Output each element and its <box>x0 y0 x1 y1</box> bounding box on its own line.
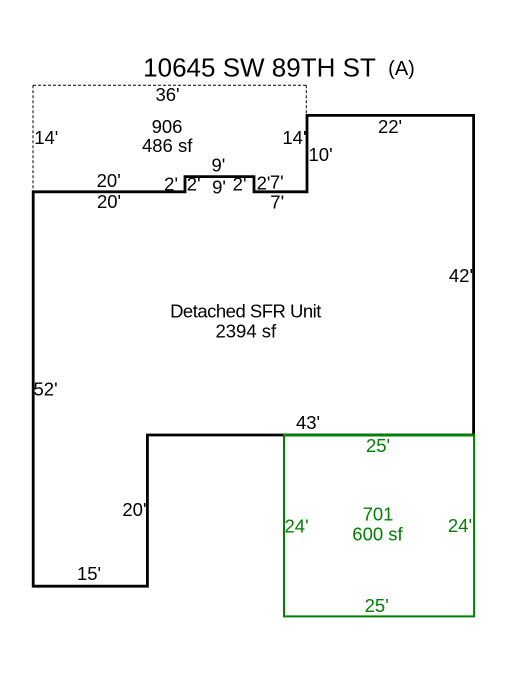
svg-text:10645 SW 89TH ST: 10645 SW 89TH ST <box>143 53 376 83</box>
svg-text:600 sf: 600 sf <box>352 524 403 545</box>
dashed area 906 outline: left edge <box>32 85 34 192</box>
svg-text:10': 10' <box>309 144 333 165</box>
svg-text:Detached SFR Unit: Detached SFR Unit <box>170 301 321 322</box>
svg-text:9': 9' <box>211 155 225 176</box>
svg-text:24': 24' <box>448 515 472 536</box>
green addition outline: 701 <box>284 435 474 616</box>
svg-text:701: 701 <box>363 504 394 525</box>
svg-text:25': 25' <box>365 595 389 616</box>
dashed area 906 outline: top edge <box>33 84 306 86</box>
svg-text:43': 43' <box>296 412 320 433</box>
svg-text:2394 sf: 2394 sf <box>215 321 277 342</box>
main building outline: Detached SFR Unit <box>33 115 473 586</box>
svg-text:7': 7' <box>270 192 284 213</box>
svg-text:906: 906 <box>152 116 183 137</box>
svg-text:25': 25' <box>366 435 390 456</box>
svg-text:20': 20' <box>97 170 121 191</box>
svg-text:2': 2' <box>187 174 201 195</box>
dashed area 906 outline: right edge <box>305 85 307 115</box>
svg-text:2': 2' <box>257 173 271 194</box>
svg-text:(A): (A) <box>388 58 415 80</box>
svg-text:7': 7' <box>270 172 284 193</box>
svg-text:14': 14' <box>34 127 58 148</box>
svg-text:15': 15' <box>77 563 101 584</box>
svg-text:14': 14' <box>282 127 306 148</box>
svg-text:22': 22' <box>378 116 402 137</box>
svg-text:42': 42' <box>449 265 473 286</box>
green addition top edge overlap cover <box>283 434 475 437</box>
svg-text:20': 20' <box>97 191 121 212</box>
svg-text:52': 52' <box>34 379 58 400</box>
svg-text:2': 2' <box>233 174 247 195</box>
svg-text:486 sf: 486 sf <box>142 135 193 156</box>
svg-text:20': 20' <box>122 499 146 520</box>
svg-text:2': 2' <box>164 174 178 195</box>
svg-text:9': 9' <box>212 177 226 198</box>
svg-text:36': 36' <box>155 84 179 105</box>
svg-text:24': 24' <box>285 516 309 537</box>
